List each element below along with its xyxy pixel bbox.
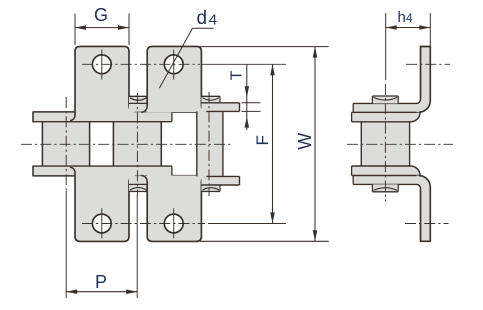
dimension W line and arrows [314,47,316,242]
dimension G extension lines [74,14,76,46]
roller 1 [42,122,89,166]
side view hole level centerline bottom [405,223,449,225]
svg-text:G: G [94,5,108,25]
hole centerline top [82,63,200,65]
top flange left [33,112,76,122]
flange line under tabs (bottom) [135,175,197,177]
tab 1 hole [92,55,111,74]
side view flange bar 2 bottom (far plate) [352,166,421,176]
dimension W extension lines [199,46,328,48]
low flange right of tab1 (top) [129,112,172,121]
chain horizontal centerline [21,143,233,145]
pin end between tabs (top) [129,95,148,97]
d4 leader line [193,27,214,29]
side view vertical centerline [384,84,386,202]
dimension G line [75,27,129,29]
bottom flange left [33,166,76,176]
slot band between tabs (bottom) [129,176,147,192]
svg-text:T: T [228,70,245,80]
side view flange bar 1 bottom (near plate) [353,176,419,185]
pin end right of tab2 (bottom) [201,185,220,192]
side view pin end top [372,96,398,103]
top attachment tab 1 [75,46,129,121]
svg-text:d: d [197,8,208,29]
hole 2 vertical centerline [173,50,175,80]
side view horizontal centerline [347,143,453,145]
svg-text:4: 4 [209,11,217,28]
side view roller [361,122,409,166]
pin end between tabs (bottom) [129,191,148,193]
pin end right of tab2 (top) [201,96,220,103]
side view hole level centerline top [406,63,450,65]
side view flange bar 2 top (far plate) [352,112,421,122]
side view pin end bottom [372,184,398,191]
svg-text:4: 4 [406,11,413,25]
svg-text:F: F [253,135,272,145]
flange line under tabs (top) [135,111,197,113]
pin 2 centerline / P extension [136,93,138,195]
dimension h4 line [386,27,431,29]
dimension T extension lines [242,102,261,104]
bottom tab 1 hole [92,214,111,233]
tab 2 hole [164,55,183,74]
bottom hole 2 vertical centerline [173,208,175,238]
top attachment tab 2 [147,46,201,112]
roller 2 [113,122,161,166]
bottom attachment tab 1 [75,166,129,241]
side view L-plate top [417,47,431,113]
chain top plate line [33,121,172,123]
dimension T line and arrows [246,64,248,130]
slot band between tabs (top) [129,96,147,112]
chain end link plates [197,111,223,176]
side view L-plate bottom [417,176,431,242]
svg-text:h: h [398,9,406,26]
hole centerline bottom [82,223,205,225]
pin 3 centerline [208,92,210,196]
top flange right of tab2 [201,103,239,112]
dimension h4 extension lines [385,13,387,80]
svg-text:P: P [95,272,107,292]
bottom hole 1 vertical centerline [101,208,103,238]
svg-text:W: W [295,133,315,150]
low flange right of tab1 (bottom) [129,166,172,175]
bottom flange right of tab2 [201,176,239,185]
roller 1 centerline / P extension [65,97,67,191]
hole 1 vertical centerline [101,50,103,80]
chain bottom plate line [33,165,172,167]
bottom tab 2 hole [164,214,183,233]
side view flange bar 1 top (near plate) [353,103,419,112]
bottom attachment tab 2 [147,176,201,242]
dimension P line and arrows [66,291,137,293]
dimension F line and arrows [272,64,274,223]
